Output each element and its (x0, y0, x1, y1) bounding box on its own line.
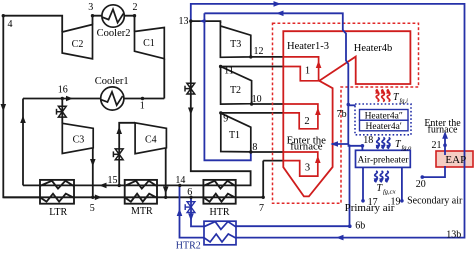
svg-text:furnace: furnace (290, 140, 323, 152)
recuperator MTR box (125, 180, 157, 204)
HTR lower zigzag (203, 194, 235, 202)
svg-text:5: 5 (90, 203, 95, 214)
blue top line 2 from T1-outlet riser to 7b column (204, 13, 348, 144)
svg-text:HTR2: HTR2 (176, 241, 201, 252)
wire node 11 to heater1 lower (221, 66, 284, 68)
svg-text:20: 20 (416, 179, 426, 190)
red arrow up heater3 (315, 156, 321, 164)
arrow up on LTR-out riser (20, 116, 26, 124)
node 11 (219, 65, 222, 68)
svg-text:11: 11 (224, 66, 234, 77)
wire C2 outlet up to node 3 (93, 16, 103, 25)
node C4 outlet junction (164, 196, 167, 199)
svg-text:HTR: HTR (210, 207, 230, 218)
svg-text:1: 1 (140, 101, 145, 112)
label T fg,i (393, 92, 408, 105)
svg-text:3: 3 (88, 2, 93, 13)
arrow right after node 5 (95, 195, 102, 201)
arrow left on 15 line (99, 183, 107, 189)
arrow down on node6 branch below valve (188, 214, 194, 222)
wire node 13 to T3 inlet (191, 21, 221, 23)
node 2 (133, 14, 136, 17)
node 12 (249, 55, 252, 58)
svg-text:EAP: EAP (445, 154, 466, 166)
svg-text:Heater4a″: Heater4a″ (365, 112, 403, 122)
wire C4 inlet riser with valve (119, 123, 135, 186)
wire C3 outlet down to node 5 (92, 148, 94, 198)
svg-text:furnace: furnace (428, 125, 459, 136)
EAP box (436, 151, 473, 167)
wire C4 outlet down to lower line (165, 148, 167, 198)
svg-text:T3: T3 (230, 39, 241, 50)
arrow up on C4 inlet riser (116, 127, 122, 135)
blue HTR2 lower-left to node 14 (180, 185, 205, 237)
blue 6b line from HTR2 (236, 225, 350, 227)
svg-text:13b: 13b (446, 229, 461, 240)
svg-text:Secondary air: Secondary air (407, 196, 463, 207)
svg-text:3: 3 (305, 163, 310, 174)
blue node6 branch through valve to HTR2 (191, 197, 204, 226)
LTR upper zigzag (40, 181, 74, 189)
heater 3 meander (283, 152, 318, 176)
svg-text:16: 16 (58, 85, 68, 96)
node 16 (61, 97, 64, 100)
svg-text:2: 2 (304, 116, 309, 127)
svg-text:MTR: MTR (131, 206, 153, 217)
node 9 (219, 111, 222, 114)
turbine T2 (221, 67, 252, 105)
wire node4 to C2 inlet top (3, 16, 62, 32)
svg-text:T1: T1 (229, 130, 240, 141)
arrow right on blue line 1 (274, 1, 282, 7)
valve below node 16 (57, 106, 67, 117)
arrow left on 13b line (336, 235, 344, 241)
wire cooler1 to node1 to C1 riser (123, 98, 164, 100)
wire C1 outlet down to cooler1 line (163, 59, 165, 99)
svg-text:Primary air: Primary air (345, 202, 395, 214)
svg-text:21: 21 (432, 140, 442, 151)
svg-text:7: 7 (259, 203, 264, 214)
svg-text:15: 15 (108, 175, 118, 186)
compressor C4 (135, 123, 166, 154)
compressor C3 (62, 123, 93, 153)
svg-text:4: 4 (8, 19, 13, 30)
wire node4 down left edge to LTR lower port (3, 16, 40, 198)
node 6 (189, 196, 192, 199)
arrow down on 13 line below valve (188, 108, 194, 116)
red arrow up heater2 (315, 108, 321, 116)
HTR2 upper zigzag (204, 222, 236, 230)
blue EAP riser with node 21 (422, 134, 445, 178)
flue gas wavy arrows T fg,o (376, 138, 391, 150)
label T fg,o (395, 139, 412, 152)
air preheater box (356, 150, 411, 167)
svg-text:Cooler1: Cooler1 (95, 76, 129, 87)
node 3 (91, 14, 94, 17)
svg-text:Heater1-3: Heater1-3 (287, 41, 329, 52)
valve on C4 inlet riser (113, 149, 123, 160)
arrow down on C3 outlet (90, 159, 96, 167)
wire cooler2 to node2 to C1 inlet (124, 16, 135, 32)
wire 16-line cooler1 row left part (23, 98, 101, 100)
svg-text:C1: C1 (143, 38, 155, 49)
recuperator LTR box (40, 180, 74, 204)
blue enter-furnace arrow line at 7b junction (332, 143, 349, 145)
node 7 (262, 196, 265, 199)
heater4a'' box (360, 110, 409, 121)
arrow down on C4 outlet (163, 187, 169, 195)
node 13 (189, 19, 192, 22)
compressor C2 (62, 25, 92, 59)
HTR2 lower zigzag (204, 234, 236, 242)
svg-text:Heater4b: Heater4b (354, 43, 392, 54)
wire node 12 to heater1 upper (251, 56, 283, 58)
blue arrows (177, 1, 448, 240)
node 5 (91, 196, 94, 199)
recuperator HTR box (203, 180, 235, 204)
node 17 (361, 199, 365, 203)
node 6b (348, 224, 352, 228)
node 19 (400, 199, 404, 203)
wire node 9 to heater2 lower (221, 112, 283, 114)
blue valve on node6 branch (185, 202, 195, 213)
svg-text:9: 9 (223, 113, 228, 124)
node 14 (178, 184, 181, 187)
arrow left enter-the-furnace mid (331, 141, 339, 147)
svg-text:12: 12 (254, 46, 264, 57)
blue 19 drop (401, 167, 403, 200)
wire node 10 to heater2 upper (252, 103, 284, 105)
arrow left on blue line 2 (276, 11, 284, 17)
svg-text:Cooler2: Cooler2 (97, 28, 131, 39)
cooler2 zigzag (102, 9, 123, 22)
blue top line 1 from node 13 around right edge to 13b and HTR2 lower right (191, 4, 465, 238)
blue 6b riser (349, 145, 351, 227)
node 20 (421, 175, 425, 179)
svg-text:2: 2 (133, 2, 138, 13)
node 18 (361, 144, 365, 148)
svg-text:Heater4a′: Heater4a′ (366, 122, 402, 132)
node 7b (347, 103, 351, 107)
flue gas wavy arrows T fg,i (375, 89, 391, 102)
svg-text:8: 8 (252, 142, 257, 153)
wire 7b stub into heater4a box (348, 104, 355, 106)
valve on 13 line (185, 83, 195, 94)
flue gas wavy arrows T fg,cx (374, 171, 390, 183)
svg-text:fg,i: fg,i (400, 98, 409, 105)
blue 17 drop (362, 167, 364, 200)
furnace wall and heater4b outline (283, 31, 410, 196)
LTR lower zigzag (40, 194, 74, 202)
turbine T3 (220, 22, 250, 58)
blue riser from node 8 to line 2 (204, 13, 250, 160)
svg-text:C2: C2 (72, 39, 84, 50)
arrow up on EAP riser to furnace (442, 131, 448, 139)
cooler2 circle (102, 5, 124, 27)
svg-text:T2: T2 (230, 85, 241, 96)
turbine T1 (221, 113, 251, 152)
node 4 (2, 14, 5, 17)
arrow up on HTR2-out riser (177, 209, 183, 217)
node 21 (443, 143, 447, 147)
node C4 inlet junction (118, 184, 121, 187)
label T fg,cx (377, 183, 396, 196)
red dashed boundary box (273, 23, 419, 203)
svg-text:Air-preheater: Air-preheater (358, 155, 410, 165)
heater4a outer dotted box (355, 104, 411, 135)
svg-text:C3: C3 (73, 134, 85, 145)
arrow down on node4 left line (1, 104, 7, 112)
node 8 (249, 150, 252, 153)
wire node 7 branch to heater3 lower (263, 160, 283, 162)
red arrow up heater1 (316, 61, 322, 69)
svg-text:7b: 7b (337, 109, 347, 120)
svg-text:1: 1 (305, 66, 310, 77)
svg-text:LTR: LTR (49, 207, 67, 218)
heater4a' box (360, 120, 409, 131)
node 1 (141, 97, 144, 100)
cooler1 zigzag (101, 92, 123, 105)
blue link junction to node 18 and air-preheater (349, 144, 363, 150)
svg-text:10: 10 (252, 94, 262, 105)
svg-text:18: 18 (363, 135, 373, 146)
heater 2 meander (283, 104, 318, 129)
MTR lower zigzag (125, 194, 157, 202)
arrow right after node 16 (66, 96, 73, 102)
wire upper hot line LTR-MTR-HTR then up and left to node 13 (23, 21, 251, 185)
compressor C1 (135, 28, 165, 59)
wire lower cold line to node 7 (3, 196, 263, 198)
arrow left into node 13 line (200, 19, 206, 24)
HTR2 recuperator box blue (204, 221, 236, 245)
heater 1 meander (283, 57, 318, 81)
svg-text:fg,cx: fg,cx (383, 189, 396, 196)
svg-text:fg,o: fg,o (402, 145, 413, 152)
svg-text:6: 6 (187, 187, 192, 198)
svg-text:13: 13 (179, 16, 189, 27)
node 10 (250, 102, 253, 105)
wire node 7 riser (262, 161, 264, 198)
svg-text:C4: C4 (145, 134, 157, 145)
wire node 8 to heater3 upper (251, 151, 283, 153)
MTR upper zigzag (125, 181, 157, 189)
svg-text:14: 14 (175, 175, 185, 186)
cooler1 circle (101, 87, 124, 110)
wire riser LTR-out up to 16-line (22, 99, 24, 186)
HTR upper zigzag (203, 181, 235, 189)
wire 16 valve to C3 inlet (61, 99, 63, 124)
svg-text:6b: 6b (355, 220, 365, 231)
